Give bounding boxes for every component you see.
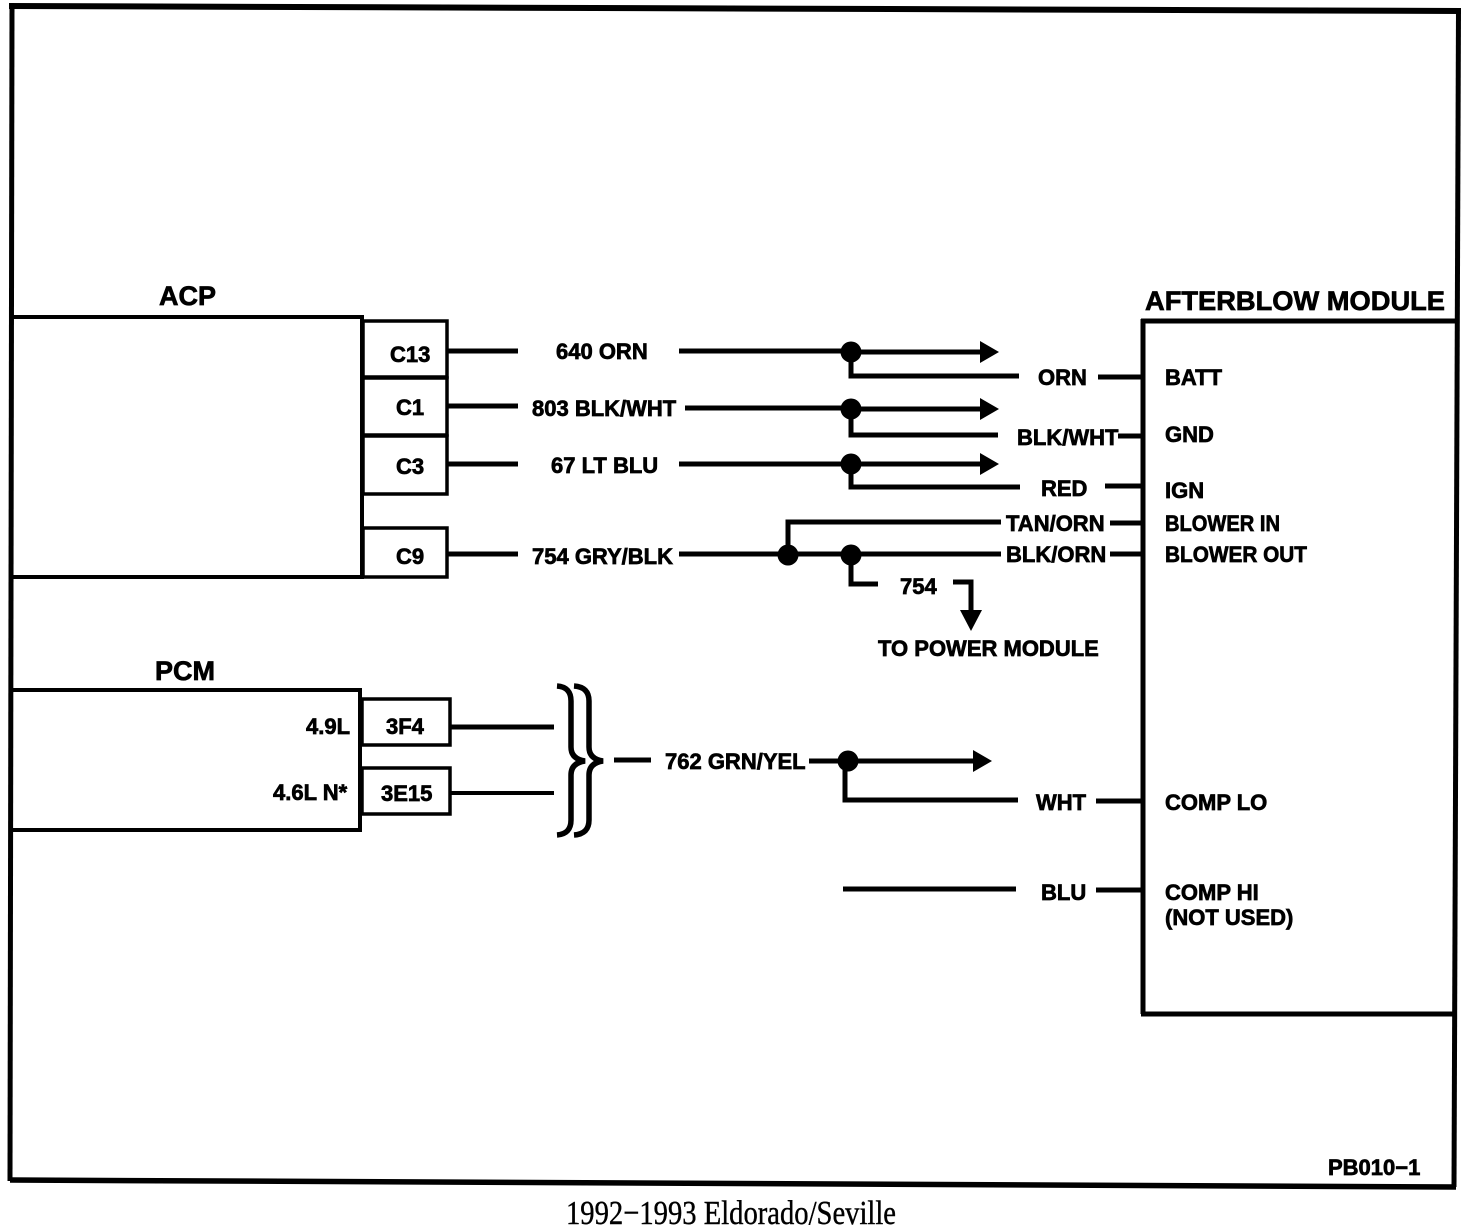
connector C3 xyxy=(363,436,447,494)
wire 762 to junction xyxy=(809,759,840,764)
svg-text:IGN: IGN xyxy=(1165,478,1204,503)
svg-text:C1: C1 xyxy=(396,395,424,420)
wire 67 to junction xyxy=(679,462,843,467)
connector C1 xyxy=(363,378,447,435)
page border right xyxy=(1454,9,1459,1187)
wire to power module elbow xyxy=(953,582,971,612)
node junction row5 left xyxy=(778,545,799,566)
wire BLK/WHT to GND xyxy=(1118,434,1142,439)
node junction row5 right xyxy=(841,545,862,566)
svg-text:4.6L N*: 4.6L N* xyxy=(273,780,348,805)
wire TAN/ORN to BLOWER IN xyxy=(1110,521,1142,526)
node junction row1 xyxy=(841,342,862,363)
wire C3 stub xyxy=(447,462,518,467)
svg-text:TO POWER MODULE: TO POWER MODULE xyxy=(878,636,1099,661)
wire BLU to COMP HI xyxy=(1096,888,1142,893)
wire row2 branch down to BLK/WHT xyxy=(851,409,998,435)
brace outer xyxy=(574,686,603,835)
svg-text:754: 754 xyxy=(900,574,937,599)
wire branch to 754 label xyxy=(851,555,878,584)
ACP box xyxy=(12,315,362,579)
wire 3E15 stub xyxy=(450,791,554,795)
page border bottom xyxy=(10,1180,1456,1187)
wire BLK/ORN to BLOWER OUT xyxy=(1110,552,1142,557)
svg-text:PB010−1: PB010−1 xyxy=(1328,1155,1420,1180)
svg-text:BLK/ORN: BLK/ORN xyxy=(1006,542,1106,567)
svg-text:PCM: PCM xyxy=(155,656,215,686)
wire C1 stub xyxy=(447,404,518,409)
wire C13 stub xyxy=(447,349,518,354)
wire arrow row6 xyxy=(848,759,975,764)
svg-text:C3: C3 xyxy=(396,454,424,479)
svg-text:4.9L: 4.9L xyxy=(306,714,350,739)
svg-text:AFTERBLOW MODULE: AFTERBLOW MODULE xyxy=(1145,286,1445,316)
svg-text:ORN: ORN xyxy=(1038,365,1087,390)
wire WHT to COMP LO xyxy=(1096,799,1142,804)
wire brace to 762 xyxy=(614,758,651,763)
svg-text:803 BLK/WHT: 803 BLK/WHT xyxy=(532,396,677,421)
svg-text:BATT: BATT xyxy=(1165,365,1223,390)
svg-text:C9: C9 xyxy=(396,544,424,569)
svg-text:(NOT USED): (NOT USED) xyxy=(1165,905,1293,930)
connector 3E15 xyxy=(362,768,450,814)
svg-text:RED: RED xyxy=(1041,476,1087,501)
svg-text:762 GRN/YEL: 762 GRN/YEL xyxy=(665,749,806,774)
wire RED to IGN xyxy=(1105,484,1142,489)
svg-text:GND: GND xyxy=(1165,422,1214,447)
wire row6 branch down to WHT xyxy=(845,761,1018,800)
connector 3F4 xyxy=(362,699,450,745)
svg-text:TAN/ORN: TAN/ORN xyxy=(1006,511,1105,536)
wire TAN/ORN riser xyxy=(788,522,1001,556)
node junction row6 xyxy=(838,751,859,772)
wire 640 ORN to junction xyxy=(679,349,843,354)
connector C9 xyxy=(363,528,447,577)
wire arrow row1 xyxy=(851,350,982,355)
svg-text:67 LT BLU: 67 LT BLU xyxy=(551,453,658,478)
node junction row3 xyxy=(841,454,862,475)
wire ORN to BATT xyxy=(1098,375,1142,380)
svg-text:BLOWER OUT: BLOWER OUT xyxy=(1165,542,1308,567)
wire 803 to junction xyxy=(685,406,843,411)
page border left xyxy=(10,4,12,1181)
page border top xyxy=(9,6,1461,11)
wire 754 to BLK/ORN xyxy=(679,552,1001,557)
PCM box xyxy=(12,688,360,832)
svg-text:BLK/WHT: BLK/WHT xyxy=(1017,425,1119,450)
svg-text:754 GRY/BLK: 754 GRY/BLK xyxy=(532,544,673,569)
svg-text:BLU: BLU xyxy=(1041,880,1086,905)
node junction row2 xyxy=(841,399,862,420)
wire row3 branch down to RED xyxy=(851,464,1020,487)
svg-text:C13: C13 xyxy=(390,342,430,367)
wire BLU left xyxy=(843,887,1016,892)
svg-text:WHT: WHT xyxy=(1036,790,1087,815)
svg-text:COMP LO: COMP LO xyxy=(1165,790,1267,815)
connector C13 xyxy=(363,321,447,377)
wire row1 branch down to ORN xyxy=(851,352,1019,376)
svg-text:3F4: 3F4 xyxy=(386,714,425,739)
wire 3F4 stub xyxy=(450,725,554,730)
wire C9 stub xyxy=(447,552,518,557)
svg-text:BLOWER IN: BLOWER IN xyxy=(1165,511,1280,536)
svg-text:1992−1993 Eldorado/Seville: 1992−1993 Eldorado/Seville xyxy=(566,1195,896,1232)
svg-text:640 ORN: 640 ORN xyxy=(556,339,648,364)
svg-text:COMP HI: COMP HI xyxy=(1165,880,1259,905)
brace inner xyxy=(557,686,585,835)
wire arrow row3 xyxy=(851,462,982,467)
svg-text:3E15: 3E15 xyxy=(381,781,432,806)
wire arrow row2 xyxy=(851,407,982,412)
svg-text:ACP: ACP xyxy=(159,281,216,311)
afterblow module box xyxy=(1141,319,1457,1014)
